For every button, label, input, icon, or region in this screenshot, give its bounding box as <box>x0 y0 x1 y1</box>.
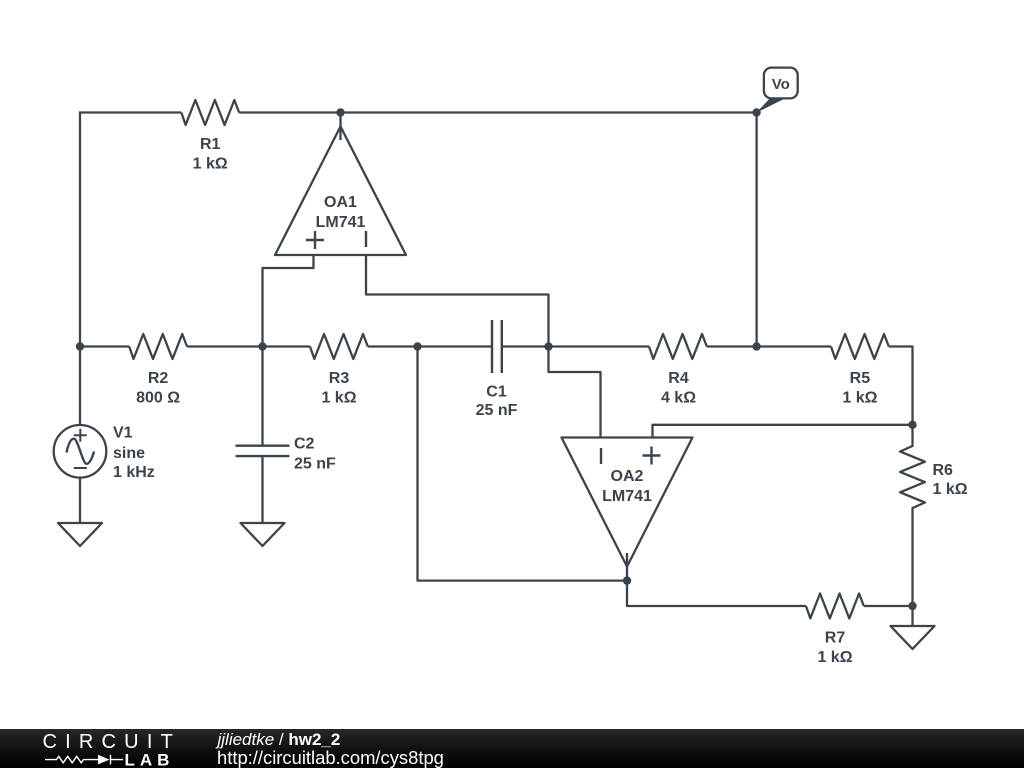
svg-text:C1: C1 <box>486 384 507 401</box>
resistor R1 <box>181 100 239 173</box>
wire R1 to output node <box>239 111 340 113</box>
svg-text:1 kΩ: 1 kΩ <box>321 390 356 407</box>
junction at OA2 output <box>623 576 631 584</box>
svg-text:C2: C2 <box>294 436 315 453</box>
junction at V1 / R2 on mid rail <box>76 342 84 350</box>
svg-text:R3: R3 <box>329 370 350 387</box>
junction at C1 / R4 / OA1 minus / OA2 minus <box>544 342 552 350</box>
svg-text:1 kΩ: 1 kΩ <box>933 481 968 498</box>
svg-text:4 kΩ: 4 kΩ <box>661 390 696 407</box>
svg-text:1 kΩ: 1 kΩ <box>193 156 228 173</box>
wire output node to Vo node <box>341 111 757 113</box>
junction at R6 bottom / R7 / ground <box>908 602 916 610</box>
resistor R7 <box>806 594 864 667</box>
wire OA1 plus input to mid rail <box>263 255 314 347</box>
svg-text:800 Ω: 800 Ω <box>136 390 180 407</box>
svg-text:25 nF: 25 nF <box>294 456 336 473</box>
junction at R4 / R5 / Vo drop wire <box>752 342 760 350</box>
svg-text:LM741: LM741 <box>316 214 366 231</box>
ground under C2 <box>241 523 285 546</box>
resistor R6 <box>900 425 968 606</box>
wire R7 to R6 bottom node <box>864 605 913 607</box>
junction at OA2 plus input / R6 top <box>908 421 916 429</box>
node Vo flag <box>757 68 798 113</box>
wire C1 node down to OA2 minus input <box>549 347 601 438</box>
wire mid rail V1 to R2 <box>80 345 129 347</box>
svg-text:R1: R1 <box>200 136 221 153</box>
svg-text:R5: R5 <box>850 370 871 387</box>
svg-text:LM741: LM741 <box>602 488 652 505</box>
CircuitLab logo resistor-diode squiggle <box>45 755 123 765</box>
wire top rail from left corner to R1 <box>80 111 181 113</box>
wire V1 to ground <box>79 478 81 523</box>
svg-text:http://circuitlab.com/cys8tpg: http://circuitlab.com/cys8tpg <box>217 747 444 768</box>
svg-text:R4: R4 <box>668 370 689 387</box>
resistor R3 <box>310 334 368 407</box>
wire OA2 plus input to R6 top node <box>653 425 913 438</box>
ground under R6/R7 <box>891 626 935 649</box>
junction at R2 / R3 / C2 / OA1 plus input <box>258 342 266 350</box>
op-amp OA2 <box>562 438 693 581</box>
wire mid node down to C2 <box>261 347 263 446</box>
junction at OA1 output / R1 / top rail <box>336 108 344 116</box>
svg-text:OA2: OA2 <box>611 468 644 485</box>
wire C2 to ground <box>261 456 263 523</box>
wire R2 to R3 <box>187 345 310 347</box>
svg-text:R6: R6 <box>933 462 954 479</box>
footer bar <box>0 729 1024 768</box>
resistor R2 <box>129 334 187 407</box>
footer author / title text <box>216 730 444 768</box>
wire left rail down to V1 <box>79 111 81 425</box>
svg-text:LAB: LAB <box>125 751 175 768</box>
wire OA1 minus input to C1 right node <box>366 255 549 347</box>
svg-text:25 nF: 25 nF <box>476 402 518 419</box>
wire OA2 output feedback to R3/C1 node <box>418 347 628 581</box>
wire OA2 output down to R7 <box>627 581 806 606</box>
capacitor C1 <box>476 320 518 419</box>
wire Vo node down to R4/R5 rail <box>755 113 757 347</box>
svg-text:R2: R2 <box>148 370 169 387</box>
svg-text:1 kHz: 1 kHz <box>113 464 155 481</box>
resistor R5 <box>831 334 889 407</box>
capacitor C2 <box>236 436 337 473</box>
junction at R3 / C1 / feedback wire <box>413 342 421 350</box>
svg-text:Vo: Vo <box>772 76 790 93</box>
wire R3 to C1 <box>368 345 492 347</box>
svg-text:V1: V1 <box>113 425 133 442</box>
svg-text:1 kΩ: 1 kΩ <box>842 390 877 407</box>
svg-text:sine: sine <box>113 445 145 462</box>
CircuitLab logo wordmark <box>43 731 182 768</box>
svg-text:OA1: OA1 <box>324 194 357 211</box>
ground under V1 <box>58 523 102 546</box>
wire R5 corner down to R6 <box>889 347 913 425</box>
svg-text:CIRCUIT: CIRCUIT <box>43 731 182 753</box>
op-amp OA1 <box>275 113 406 256</box>
svg-text:R7: R7 <box>825 630 846 647</box>
resistor R4 <box>649 334 707 407</box>
wire R4 to R5 <box>707 345 831 347</box>
voltage source V1 <box>54 425 155 481</box>
svg-text:1 kΩ: 1 kΩ <box>817 649 852 666</box>
wire R6 bottom node to ground <box>911 606 913 626</box>
junction at Vo node on top rail <box>752 108 760 116</box>
wire C1 to R4 <box>502 345 649 347</box>
